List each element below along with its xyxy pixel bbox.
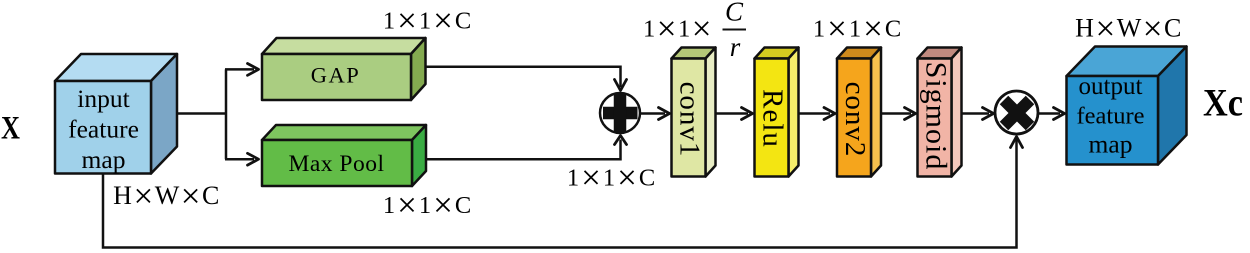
svg-text:Sigmoid: Sigmoid — [920, 62, 953, 171]
svg-text:H×W×C: H×W×C — [113, 177, 221, 216]
svg-text:H×W×C: H×W×C — [1075, 9, 1183, 48]
svg-text:1×1×C: 1×1×C — [813, 9, 903, 48]
svg-text:Relu: Relu — [757, 89, 789, 148]
svg-text:Xc: Xc — [1203, 82, 1243, 125]
wire arrow conv2 to Sigmoid — [881, 108, 916, 120]
wire arrow into GAP — [225, 64, 259, 76]
svg-text:conv1: conv1 — [674, 82, 706, 158]
wire from input cube to branch point — [177, 112, 226, 115]
wire arrow into Max Pool — [225, 153, 259, 165]
svg-text:r: r — [730, 32, 741, 62]
conv2 block — [837, 48, 881, 177]
svg-text:1×1×C: 1×1×C — [567, 158, 657, 197]
wire arrow Sigmoid to multiply node — [962, 108, 994, 120]
svg-text:feature: feature — [1077, 103, 1145, 130]
label 1×1×C/r above conv1 — [643, 0, 746, 62]
wire arrow multiply node to output cube — [1038, 108, 1065, 120]
Relu block — [755, 48, 799, 177]
GAP box — [262, 38, 426, 100]
multiply node (circle cross) — [995, 91, 1038, 134]
svg-text:1×1×C: 1×1×C — [383, 186, 473, 225]
wire from Max Pool to add node — [426, 140, 621, 160]
svg-text:1×1×: 1×1× — [643, 9, 713, 48]
Max Pool box — [262, 125, 426, 186]
wire arrow add node to conv1 — [640, 108, 670, 120]
svg-text:map: map — [82, 145, 126, 174]
svg-text:conv2: conv2 — [839, 82, 871, 158]
svg-text:feature: feature — [68, 115, 139, 144]
svg-text:C: C — [725, 0, 744, 27]
wire arrow Relu to conv2 — [799, 108, 836, 120]
add node (circle plus) — [600, 93, 640, 133]
svg-text:GAP: GAP — [311, 63, 361, 88]
conv1 block — [672, 48, 716, 177]
svg-text:X: X — [1, 111, 20, 147]
Sigmoid block — [918, 48, 962, 177]
wire from GAP to add node — [426, 67, 621, 87]
svg-text:1×1×C: 1×1×C — [383, 1, 473, 40]
input feature map cube — [55, 54, 177, 174]
wire branch vertical — [225, 69, 228, 159]
wire bottom rail from input map to multiply node — [103, 139, 1017, 248]
wire arrow conv1 to Relu — [716, 108, 753, 120]
svg-text:map: map — [1089, 129, 1133, 158]
svg-text:input: input — [77, 84, 129, 113]
output feature map cube — [1067, 47, 1187, 165]
svg-text:Max Pool: Max Pool — [288, 151, 384, 177]
svg-text:output: output — [1079, 73, 1143, 100]
arrowhead into multiply node bottom — [1011, 137, 1023, 148]
